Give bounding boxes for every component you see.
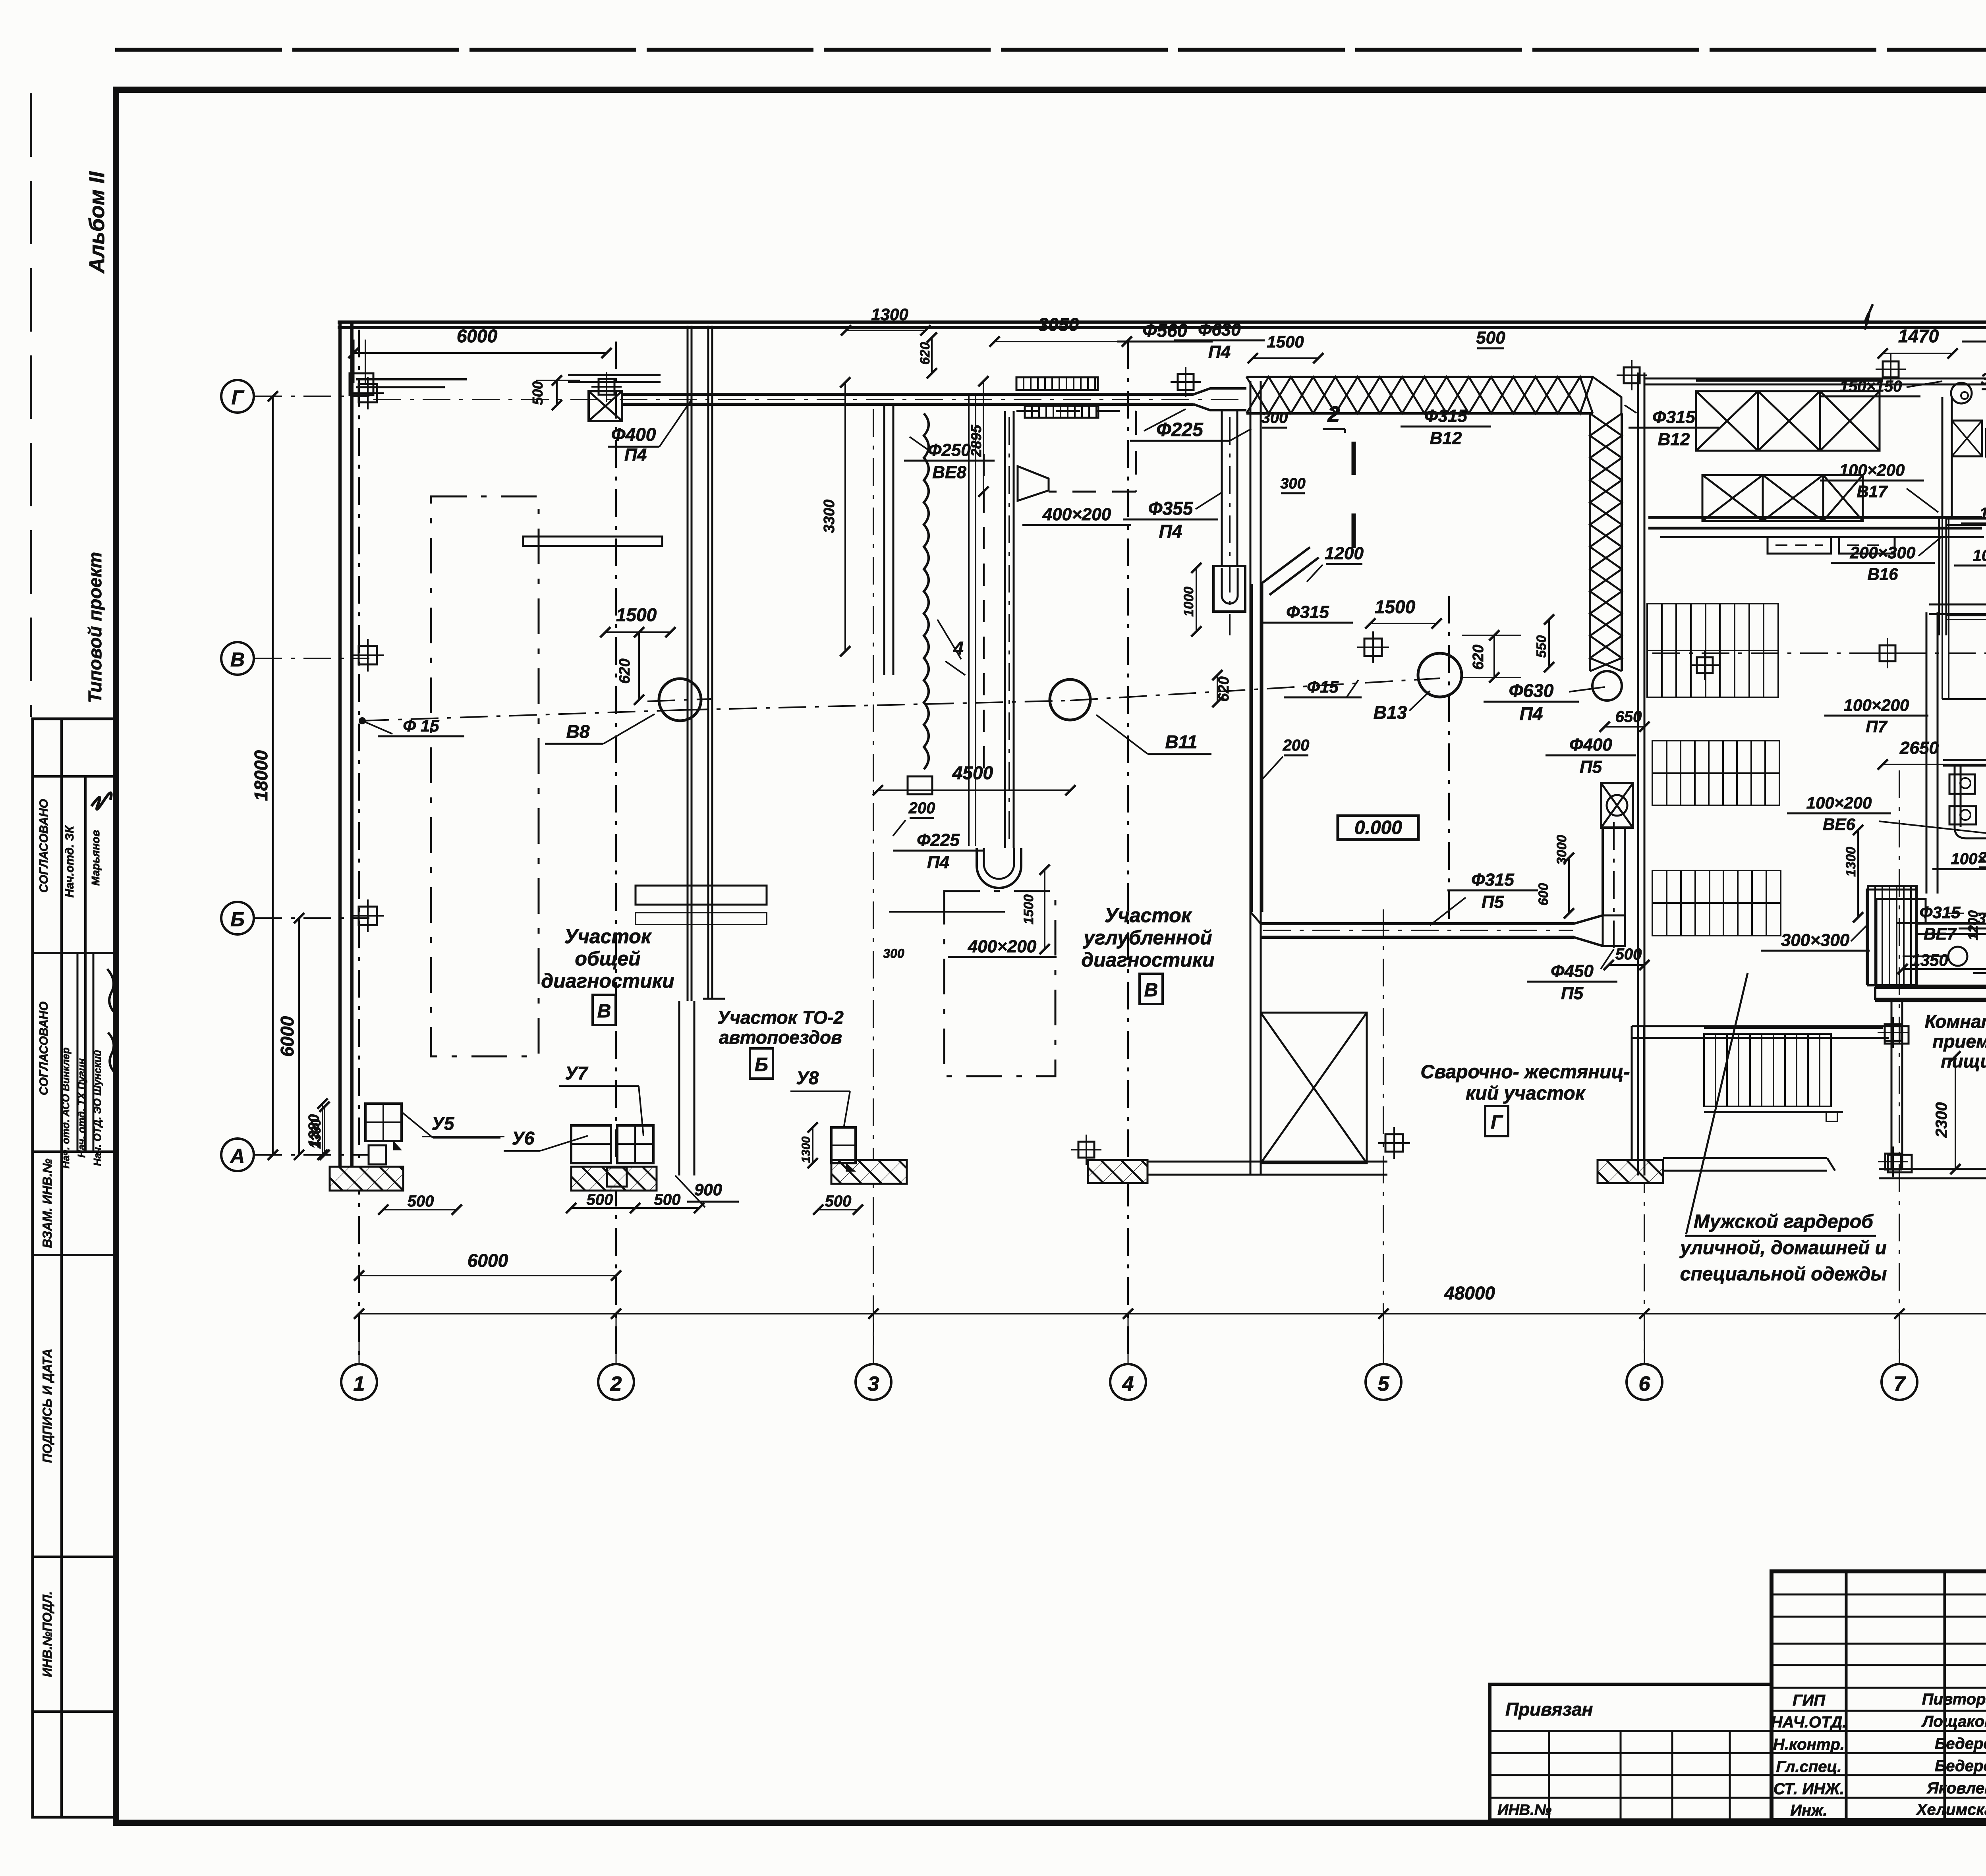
svg-text:ИНВ.№ПОДЛ.: ИНВ.№ПОДЛ. [40, 1591, 54, 1677]
svg-text:Ф250: Ф250 [928, 440, 971, 460]
column mark axis Г-1 [352, 377, 384, 409]
equipment dashed 2 [944, 891, 1055, 1076]
label 300 small col4 [1280, 475, 1305, 493]
svg-text:1500: 1500 [1021, 894, 1036, 924]
svg-text:0.000: 0.000 [1354, 817, 1402, 838]
label 300 garderob [1981, 371, 1986, 389]
svg-text:ИНВ.№: ИНВ.№ [1497, 1802, 1551, 1818]
svg-text:3000: 3000 [1554, 835, 1569, 865]
axis circle 4 [1110, 1364, 1146, 1400]
svg-text:500: 500 [587, 1191, 613, 1208]
svg-text:Ф450: Ф450 [1551, 961, 1594, 981]
svg-text:специальной одежды: специальной одежды [1680, 1264, 1887, 1285]
dim 1380 left [306, 1102, 330, 1160]
column mark top col6 [1617, 360, 1647, 390]
label 150x150 g1 [1821, 378, 1942, 396]
toilet bowl 2 [1949, 806, 1976, 824]
svg-text:1470: 1470 [1898, 326, 1939, 346]
room label Участок общей диагностики [541, 925, 674, 992]
outlet В8 circle [647, 679, 711, 721]
dim 2300 приема [1933, 1051, 1961, 1174]
svg-text:Б: Б [230, 908, 244, 930]
svg-text:1300: 1300 [309, 1119, 324, 1149]
duct В12 end circle [1592, 671, 1622, 701]
svg-text:300: 300 [883, 946, 904, 961]
column mark inner garderob [1690, 650, 1720, 680]
label 300 mid [883, 946, 904, 961]
room label Участок ТО-2 [717, 1007, 844, 1048]
axis circle 7 [1882, 1364, 1917, 1400]
svg-text:П4: П4 [1208, 342, 1231, 362]
axis 7 dash-dot line [1899, 770, 1900, 1364]
bottom wall porch col5-6 [1879, 1169, 1986, 1178]
outlet ВЕ7 circle [1903, 947, 1967, 966]
svg-text:Г: Г [232, 386, 245, 409]
axis circle 1 [341, 1364, 377, 1400]
room letter В 1 [593, 995, 616, 1025]
svg-text:6000: 6000 [457, 326, 498, 346]
svg-text:Ф315: Ф315 [1424, 406, 1467, 426]
svg-text:Марьянов: Марьянов [89, 830, 102, 886]
label Ф630 П4 [1484, 680, 1605, 724]
svg-text:Нач.отд. ЗК: Нач.отд. ЗК [63, 825, 76, 897]
svg-text:ГИП: ГИП [1793, 1692, 1826, 1709]
duct В12 elbow [1593, 377, 1621, 413]
dim 500 У5 [378, 1193, 462, 1215]
top wall [338, 322, 1986, 328]
duct branch col2 vertical [1005, 411, 1014, 848]
dim 1500 top col4 [1248, 332, 1323, 363]
svg-text:НАЧ.ОТД.: НАЧ.ОТД. [1771, 1714, 1847, 1731]
svg-text:500: 500 [825, 1193, 852, 1210]
svg-text:П5: П5 [1580, 757, 1602, 777]
corridor node square bottom [1888, 1155, 1912, 1172]
room letter В 2 [1140, 974, 1163, 1004]
title row Inzh [1790, 1801, 1986, 1819]
svg-text:300: 300 [1280, 475, 1305, 492]
svg-text:620: 620 [616, 658, 633, 683]
garderob top wall left [1644, 378, 1986, 384]
stamp signature squiggle 2 [107, 969, 117, 1075]
svg-text:Ф315: Ф315 [1652, 407, 1695, 427]
dim 6000 bottom left [354, 1250, 621, 1281]
dim 600 П5 [1536, 883, 1551, 906]
corridor wall double [1891, 1002, 1902, 1169]
room letter Г [1485, 1106, 1508, 1136]
svg-text:В12: В12 [1658, 430, 1690, 449]
svg-text:6: 6 [1639, 1372, 1651, 1395]
svg-text:200: 200 [908, 799, 935, 817]
svg-text:5: 5 [1378, 1372, 1390, 1395]
svg-text:кий участок: кий участок [1466, 1083, 1586, 1104]
svg-text:500: 500 [529, 381, 546, 405]
svg-text:Н.контр.: Н.контр. [1773, 1736, 1845, 1753]
label Ф315 col4 [1262, 602, 1353, 623]
toilet cell wall [1942, 519, 1986, 699]
section mark 2 [1323, 401, 1354, 548]
label 300 col4 [1230, 409, 1288, 441]
room label Участок углубленной [1081, 904, 1214, 971]
svg-text:Ф315: Ф315 [1920, 903, 1961, 922]
label 100x200 П7 left [1824, 696, 1928, 736]
top wall break mark [1865, 304, 1873, 330]
duct П5 taper [1574, 915, 1603, 946]
label 300x300 [1761, 925, 1870, 951]
bottom wall pier У6-У7 [571, 1167, 657, 1191]
label 200x300 В16 [1831, 536, 1942, 583]
label 200 П5 [1263, 737, 1309, 778]
left stamp vertical divider [60, 719, 63, 1817]
dim 500 П5 [1603, 946, 1650, 970]
dim 620 В8 [616, 627, 644, 705]
welding X table [1261, 1013, 1367, 1163]
toilet cells mid [1946, 616, 1986, 620]
dim 4500 [873, 762, 1076, 795]
svg-text:В: В [230, 648, 245, 671]
partition col2+ post line [679, 326, 694, 1175]
svg-text:100×200: 100×200 [1806, 793, 1872, 812]
title row St inzh [1773, 1779, 1986, 1798]
label Ф315 П5 [1430, 870, 1538, 925]
svg-text:1500: 1500 [1375, 596, 1416, 617]
axis row &#1041; dash-dot [254, 917, 369, 919]
axis circle &#1041; [221, 902, 254, 934]
svg-text:общей: общей [575, 948, 640, 970]
damper В16 bowtie [1952, 421, 1982, 456]
column mark bottom col4 [1071, 1135, 1101, 1165]
label У5 [402, 1112, 504, 1138]
svg-text:СТ. ИНЖ.: СТ. ИНЖ. [1773, 1780, 1844, 1798]
svg-text:200: 200 [1283, 737, 1310, 754]
dim 1350 ВЕ7 [1897, 951, 1986, 974]
svg-text:1300: 1300 [1843, 847, 1858, 877]
svg-text:ВЗАМ. ИНВ.№: ВЗАМ. ИНВ.№ [40, 1158, 54, 1248]
duct П5 vertical [1603, 822, 1625, 949]
svg-text:Ф355: Ф355 [1148, 498, 1194, 519]
dim 620 top col3 [918, 332, 937, 378]
underline Мужской [1685, 1235, 1876, 1237]
svg-text:Участок: Участок [564, 925, 652, 948]
dim 1300 г [1843, 825, 1863, 923]
svg-text:6000: 6000 [277, 1016, 298, 1057]
dim 620 В11 [1212, 670, 1232, 707]
axis circle 2 [598, 1364, 634, 1400]
svg-text:В12: В12 [1430, 428, 1462, 448]
duct П7 chase vertical [1926, 604, 1986, 894]
duct П4 wide run [1210, 388, 1246, 410]
axis circle &#1043; [221, 380, 254, 413]
label У8 [790, 1067, 850, 1126]
svg-text:6000: 6000 [468, 1250, 508, 1271]
svg-text:3050: 3050 [1038, 314, 1079, 335]
svg-text:П4: П4 [1159, 521, 1182, 542]
svg-text:300: 300 [1262, 409, 1288, 427]
svg-text:Ф 15: Ф 15 [403, 716, 439, 735]
svg-text:200×300: 200×300 [1850, 543, 1916, 562]
fan В17 spiral [1951, 383, 1972, 403]
bottom wall pier col4 [1598, 1160, 1663, 1183]
privyazan text [1505, 1699, 1593, 1720]
platform bars ТО-2 upper [523, 537, 767, 924]
column mark axis Б-1 [352, 899, 384, 932]
duct В16 hanging boxes [1768, 537, 1895, 554]
svg-text:ВЕ8: ВЕ8 [932, 463, 966, 482]
duct П4 intake grille box [589, 391, 622, 421]
dim 1500 В8 [600, 604, 676, 637]
duct П5 elbow at wall [1250, 912, 1261, 924]
stamp inv n podl [40, 1591, 54, 1677]
svg-text:В11: В11 [1165, 731, 1198, 752]
duct П4 main run [373, 394, 1243, 404]
svg-text:диагностики: диагностики [541, 970, 674, 992]
svg-text:500: 500 [408, 1193, 434, 1210]
duct П4 col4 U-end [1213, 566, 1245, 612]
svg-text:1000: 1000 [1181, 587, 1196, 617]
wc room wall [1943, 519, 1986, 855]
toilet bowl 1 [1949, 774, 1975, 794]
left stamp outer border [33, 719, 116, 1817]
bottom wall pier axis1 [330, 1167, 403, 1191]
svg-text:48000: 48000 [1444, 1283, 1495, 1303]
label У7 [559, 1063, 643, 1136]
svg-text:1200: 1200 [1325, 544, 1364, 563]
svg-text:ПОДПИСЬ И ДАТА: ПОДПИСЬ И ДАТА [40, 1349, 54, 1463]
stamp row line d [33, 1254, 116, 1256]
label Ф400 П4 [608, 400, 691, 465]
label 400x200 top [1022, 505, 1131, 525]
unit У5 [365, 1104, 402, 1164]
axis circle 5 [1366, 1364, 1401, 1400]
duct П4 wall plate left [350, 373, 467, 395]
svg-text:У7: У7 [565, 1063, 589, 1083]
duct П4 plate mid [568, 375, 661, 382]
lockers X row 1 [1696, 380, 1883, 451]
svg-text:Ф630: Ф630 [1198, 320, 1241, 340]
dim 3050 top [989, 314, 1132, 347]
label 400x400 [1973, 953, 1986, 973]
dim 18000 left [251, 391, 278, 1160]
dim 500 top col2 [529, 375, 580, 410]
privyazan table [1490, 1684, 1772, 1820]
stamp row line c [33, 1150, 116, 1153]
dim 1500 П4 [1021, 865, 1050, 954]
svg-text:2: 2 [1327, 401, 1340, 427]
svg-text:диагностики: диагностики [1081, 949, 1214, 971]
axis row &#1043; dash-dot [254, 396, 369, 397]
svg-text:300: 300 [1981, 371, 1986, 388]
svg-text:Хелимская: Хелимская [1916, 1801, 1986, 1818]
svg-text:Сварочно- жестяниц-: Сварочно- жестяниц- [1420, 1062, 1630, 1083]
unit У6 У7 [571, 1125, 653, 1187]
svg-text:Привязан: Привязан [1505, 1699, 1593, 1720]
dim 500 У6 [566, 1191, 640, 1213]
title row N kontr [1773, 1735, 1986, 1753]
dim 500 У8 [813, 1193, 863, 1215]
garderob mid walls [1632, 1026, 1889, 1160]
dim 1300 У5 [309, 1098, 328, 1160]
svg-text:3: 3 [868, 1372, 879, 1395]
svg-text:Участок ТО-2: Участок ТО-2 [717, 1007, 844, 1028]
duct В12 flex horizontal [1246, 377, 1593, 413]
label Ф315 В12 right [1401, 406, 1491, 448]
svg-text:П4: П4 [624, 445, 647, 465]
svg-text:Ф400: Ф400 [1569, 735, 1612, 755]
svg-text:18000: 18000 [251, 750, 271, 801]
stamp divider col3 [77, 953, 93, 1152]
wc duct chase [1955, 766, 1986, 838]
label Ф225 П4 mid [893, 830, 983, 872]
column mark top col7 [1876, 354, 1906, 384]
duct П5 horizontal [1261, 924, 1574, 937]
stamp row line b [33, 952, 116, 954]
inspection pit dashed 1 [431, 496, 539, 1056]
partition wall col 3-4 duct chase [969, 395, 976, 846]
svg-text:Типовой проект: Типовой проект [85, 552, 105, 703]
svg-text:СОГЛАСОВАНО: СОГЛАСОВАНО [37, 1002, 50, 1095]
dim 1300 У8 [800, 1122, 818, 1168]
axis row &#1040; dash-dot [254, 1154, 369, 1156]
svg-text:1500: 1500 [1267, 332, 1304, 351]
stamp nach otd EO [91, 1050, 103, 1166]
В16 duct down segment [1939, 519, 1946, 635]
svg-text:У5: У5 [432, 1113, 455, 1134]
svg-text:Б: Б [755, 1054, 768, 1075]
outlet В11 circle [1050, 679, 1090, 720]
sheet top edge (scan border) [115, 48, 1986, 52]
column mark inner 7-Б [1878, 1017, 1909, 1048]
stamp nach otd ASO [60, 1047, 71, 1168]
partition rail ТО-2 [703, 326, 725, 999]
svg-text:В17: В17 [1857, 482, 1888, 501]
leader Мужской [1686, 973, 1748, 1234]
svg-text:900: 900 [694, 1180, 722, 1199]
svg-text:П5: П5 [1482, 892, 1504, 912]
axis 3 dash-dot line [873, 409, 874, 1364]
unit У8 [831, 1127, 856, 1172]
axis 1 dash-dot line [358, 330, 360, 1364]
label Ф160 В17 [1962, 321, 1986, 363]
stamp text soglasovano 2 [37, 1002, 50, 1095]
duct П4 taper [1194, 388, 1210, 410]
duct П5 elbow up [1603, 915, 1625, 946]
svg-text:2650: 2650 [1899, 738, 1939, 758]
svg-text:4500: 4500 [952, 762, 993, 783]
svg-text:Бедеров: Бедеров [1935, 1735, 1986, 1752]
svg-text:У6: У6 [512, 1128, 535, 1148]
svg-text:Гл.спец.: Гл.спец. [1776, 1758, 1842, 1776]
svg-text:Яковлева: Яковлева [1926, 1779, 1986, 1797]
svg-text:500: 500 [1615, 946, 1642, 963]
vertical text Album II [85, 171, 109, 274]
label Ф315 ВЕ7 [1897, 903, 1983, 943]
svg-text:400×200: 400×200 [968, 937, 1037, 956]
duct ВЕ7 assembly [1868, 886, 1916, 985]
label 300x200 П7 [1959, 910, 1986, 948]
label Ф355 П4 [1123, 492, 1222, 542]
label 500 В12 [1476, 328, 1505, 348]
label 100x200 ВЕ6 [1787, 793, 1986, 834]
column mark bottom mid [1378, 1127, 1410, 1159]
svg-text:Участок: Участок [1105, 904, 1192, 926]
axis 4 dash-dot line [1127, 342, 1129, 1364]
duct diag Ф315 col4 [1252, 547, 1319, 912]
duct ВЕ8 flex wavy [908, 413, 932, 794]
svg-text:Г: Г [1491, 1112, 1503, 1133]
column mark bottom col7 [1878, 1146, 1908, 1177]
vertical text Tipovoy proekt [85, 552, 105, 703]
column mark axis В-1 [352, 639, 384, 672]
title row GIP [1793, 1691, 1986, 1709]
svg-text:300×200: 300×200 [1977, 910, 1986, 927]
partition wall col6 [1638, 372, 1644, 1175]
svg-text:А: А [230, 1145, 245, 1167]
svg-text:Комната: Комната [1925, 1011, 1986, 1032]
shelf block 2 [1652, 741, 1779, 805]
label Ф630 П4 top [1174, 320, 1265, 362]
svg-text:1350: 1350 [1911, 951, 1948, 969]
label 4 callout [937, 620, 965, 675]
shelf block 3 [1652, 870, 1781, 936]
bottom wall opening col3-4 [1148, 1162, 1387, 1175]
svg-text:1500: 1500 [616, 604, 657, 625]
stamp row line a [33, 775, 116, 778]
svg-text:Ф315: Ф315 [1471, 870, 1514, 890]
svg-text:У8: У8 [796, 1067, 819, 1088]
grille comb on П4 [1016, 377, 1098, 418]
svg-text:Ф630: Ф630 [1509, 680, 1554, 701]
duct П5 flange box [1601, 783, 1633, 828]
svg-text:П4: П4 [927, 853, 949, 872]
outlet В13 circle [1357, 596, 1462, 921]
lockers X row 2 [1702, 475, 1863, 521]
svg-text:В8: В8 [566, 721, 590, 742]
svg-text:200: 200 [1978, 849, 1986, 866]
svg-text:300×300: 300×300 [1781, 930, 1850, 950]
label 200 r [1978, 849, 1986, 867]
svg-text:СОГЛАСОВАНО: СОГЛАСОВАНО [37, 799, 50, 893]
column mark top col2 [591, 372, 622, 402]
svg-text:Альбом II: Альбом II [85, 171, 109, 274]
room letter Б [750, 1048, 773, 1079]
svg-text:ВЕ6: ВЕ6 [1823, 815, 1855, 834]
label Ф400 П5 [1546, 735, 1636, 777]
svg-text:4: 4 [1122, 1372, 1134, 1395]
svg-text:В16: В16 [1867, 565, 1898, 583]
label В8 [545, 714, 655, 744]
svg-text:В: В [597, 1001, 611, 1022]
dim 48000 extension drops [359, 1314, 1986, 1364]
dim 1000 col4 [1181, 563, 1202, 637]
svg-text:В: В [1144, 980, 1158, 1001]
dim 3000 П5 [1554, 835, 1574, 919]
label 0.000 [1338, 816, 1418, 840]
stamp signature squiggle 1 [91, 793, 111, 809]
label В11 [1096, 715, 1211, 754]
svg-text:600: 600 [1536, 883, 1551, 906]
pipe Ф15 dash-dot [361, 678, 1440, 721]
stamp podpis i data [40, 1349, 54, 1463]
svg-text:Ф15: Ф15 [1307, 677, 1339, 696]
axis В right dash-dot [1652, 652, 1986, 654]
svg-text:углубленной: углубленной [1082, 926, 1212, 949]
svg-text:100×200: 100×200 [1839, 461, 1905, 479]
stamp row line e [33, 1556, 116, 1558]
left wall [340, 322, 352, 1177]
axis 6 dash-dot line [1644, 377, 1645, 1364]
svg-text:2: 2 [610, 1372, 622, 1395]
svg-text:Пивторак: Пивторак [1922, 1691, 1986, 1708]
stamp vzam inv [40, 1158, 54, 1248]
